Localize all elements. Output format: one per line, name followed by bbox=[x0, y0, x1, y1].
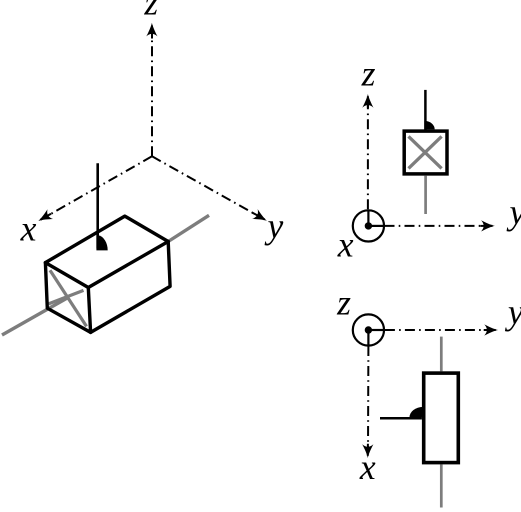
svg-text:x: x bbox=[359, 447, 376, 487]
svg-text:y: y bbox=[265, 206, 284, 246]
y-axis (bottom-right view) bbox=[385, 324, 498, 335]
box (3D parallelepiped) bbox=[45, 216, 170, 332]
pin flag (filled quarter disc, top-right view) bbox=[424, 121, 434, 129]
svg-text:x: x bbox=[20, 209, 37, 249]
svg-text:z: z bbox=[361, 54, 376, 94]
svg-text:x: x bbox=[337, 225, 354, 265]
pin (vertical rod on box, 3D view) bbox=[96, 163, 99, 248]
shaft (gray axle, lower-left segment) bbox=[2, 298, 68, 336]
X-cross in square (top-right view) bbox=[409, 136, 442, 168]
box top face A-B-C-D bbox=[45, 216, 168, 287]
shaft stub below rectangle (gray, bottom-right view) bbox=[440, 464, 443, 507]
body rectangle (bottom-right view) bbox=[424, 373, 459, 463]
shaft (gray axle, upper-right segment) bbox=[168, 215, 209, 241]
x-axis (bottom-right view) bbox=[362, 346, 373, 458]
z-axis symbol: circle with dot (bottom-right view) bbox=[353, 314, 384, 345]
box left face edges A-F-E-D bbox=[45, 263, 90, 333]
pin flag (filled quarter disc, 3D view) bbox=[96, 235, 107, 250]
svg-text:y: y bbox=[507, 192, 521, 232]
svg-text:y: y bbox=[505, 292, 521, 332]
svg-text:z: z bbox=[143, 0, 158, 22]
shaft stub below square (gray, top-right view) bbox=[424, 176, 427, 214]
body square (top-right view) bbox=[404, 131, 447, 174]
y-axis (3D view) bbox=[152, 156, 270, 225]
svg-text:z: z bbox=[336, 283, 351, 323]
z-axis (top-right view) bbox=[362, 94, 373, 209]
shaft stub above rectangle (gray, bottom-right view) bbox=[440, 337, 443, 372]
X-cross on box end face (gray) bbox=[49, 270, 87, 326]
z-axis (3D view) bbox=[146, 23, 157, 157]
pin (bottom-right view) bbox=[380, 417, 422, 420]
x-axis symbol: circle with dot (top-right view) bbox=[353, 210, 384, 241]
y-axis (top-right view) bbox=[385, 220, 495, 231]
box right face edges C-G-E bbox=[91, 242, 171, 333]
x-axis (3D view) bbox=[36, 156, 152, 226]
pin (top-right view) bbox=[424, 90, 427, 130]
pin flag (filled quarter disc, bottom-right view) bbox=[410, 407, 424, 417]
